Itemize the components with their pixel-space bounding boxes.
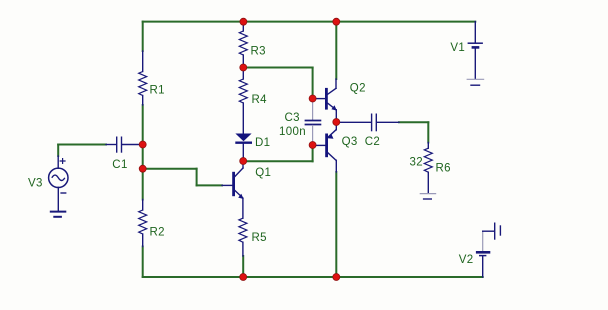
svg-text:C2: C2 <box>365 136 380 148</box>
svg-text:100n: 100n <box>279 126 306 138</box>
svg-text:R1: R1 <box>150 85 165 97</box>
svg-text:R6: R6 <box>436 163 451 175</box>
svg-text:R4: R4 <box>252 94 268 106</box>
svg-text:C1: C1 <box>112 159 127 171</box>
svg-text:C3: C3 <box>285 112 300 124</box>
svg-text:Q2: Q2 <box>350 83 366 95</box>
svg-text:V2: V2 <box>459 254 474 266</box>
svg-text:R3: R3 <box>251 46 266 58</box>
svg-text:Q3: Q3 <box>342 136 358 148</box>
svg-text:R5: R5 <box>252 232 267 244</box>
svg-text:V3: V3 <box>28 177 43 189</box>
svg-text:32: 32 <box>410 157 424 169</box>
svg-text:R2: R2 <box>150 227 165 239</box>
svg-text:D1: D1 <box>255 137 270 149</box>
svg-text:Q1: Q1 <box>255 167 271 179</box>
svg-text:V1: V1 <box>450 42 465 54</box>
